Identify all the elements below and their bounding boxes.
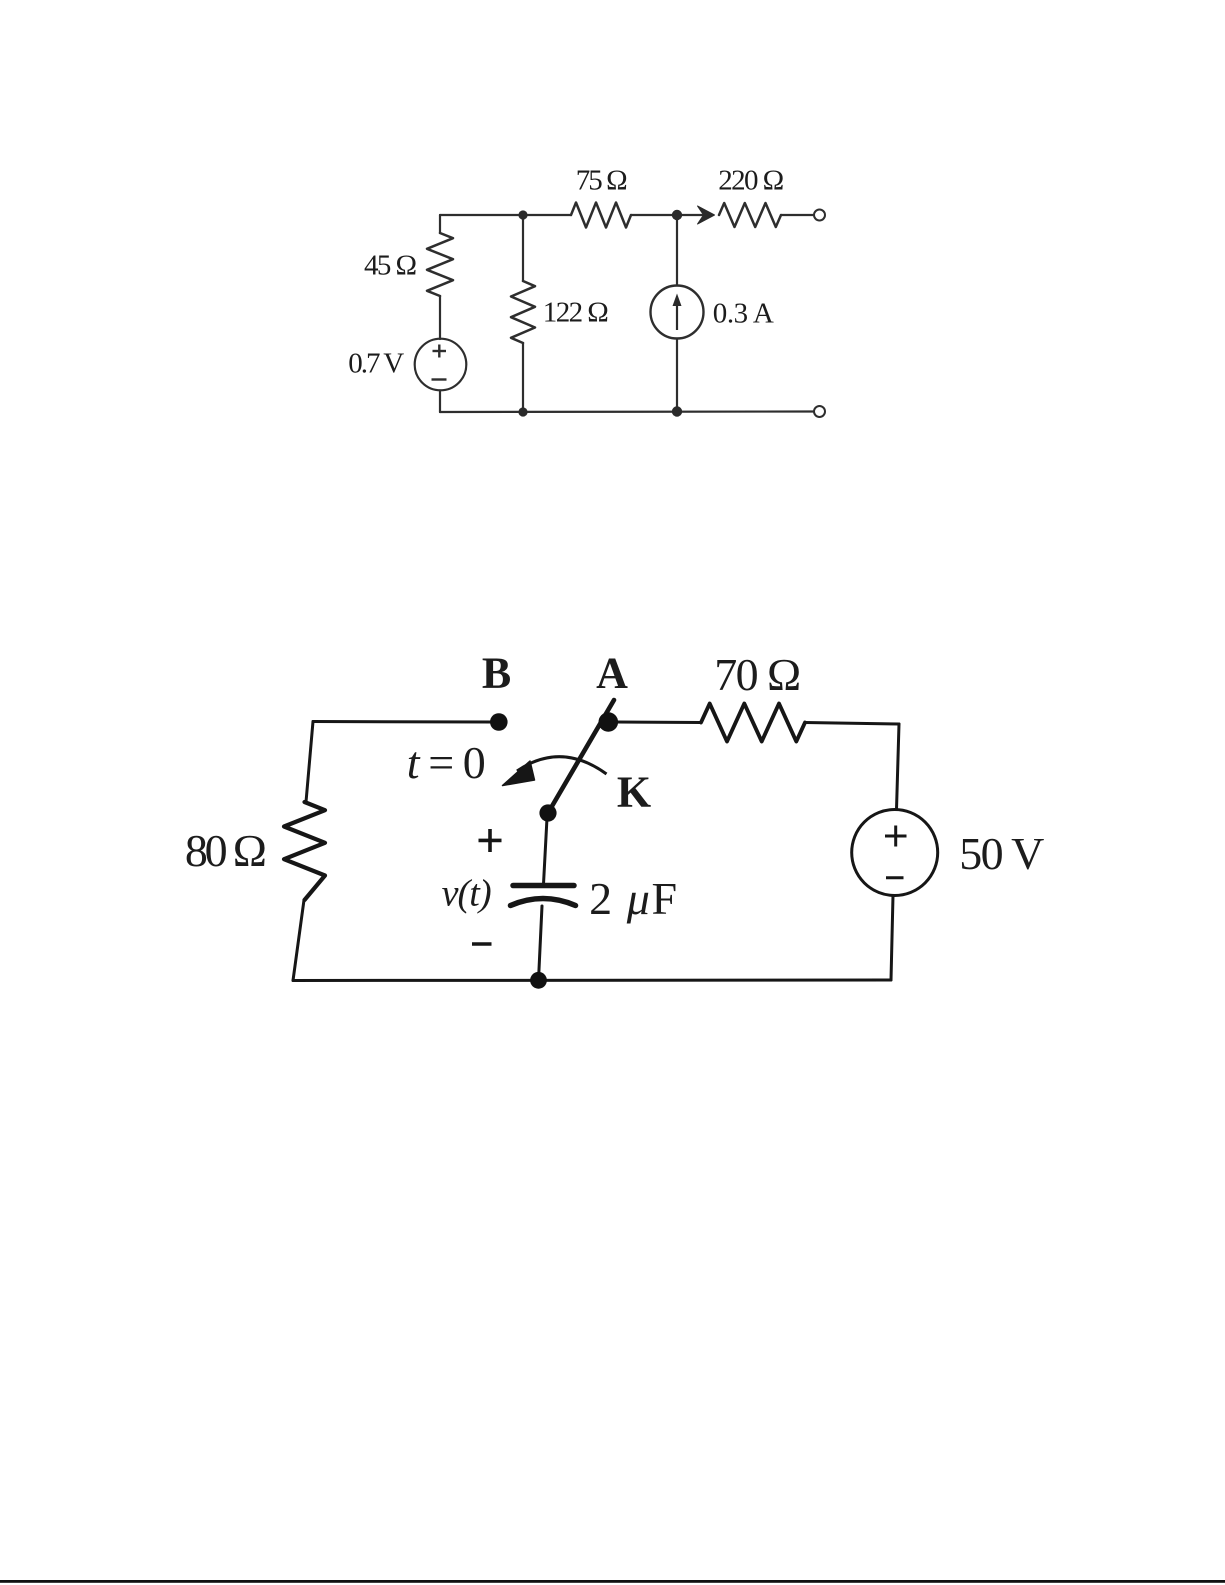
svg-text:2 μF: 2 μF: [589, 873, 677, 924]
svg-text:45 Ω: 45 Ω: [364, 250, 417, 282]
svg-text:0.7 V: 0.7 V: [348, 347, 404, 379]
svg-text:122 Ω: 122 Ω: [543, 297, 609, 329]
svg-text:50 V: 50 V: [959, 828, 1044, 879]
svg-text:220 Ω: 220 Ω: [718, 165, 784, 197]
svg-text:B: B: [482, 649, 511, 698]
svg-text:A: A: [596, 649, 628, 698]
svg-text:K: K: [617, 768, 651, 817]
svg-text:80 Ω: 80 Ω: [185, 825, 267, 876]
svg-text:t = 0: t = 0: [407, 737, 486, 788]
svg-text:0.3 A: 0.3 A: [713, 298, 774, 330]
svg-text:v(t): v(t): [442, 873, 492, 915]
svg-text:70 Ω: 70 Ω: [714, 649, 801, 700]
svg-text:75 Ω: 75 Ω: [576, 165, 628, 197]
